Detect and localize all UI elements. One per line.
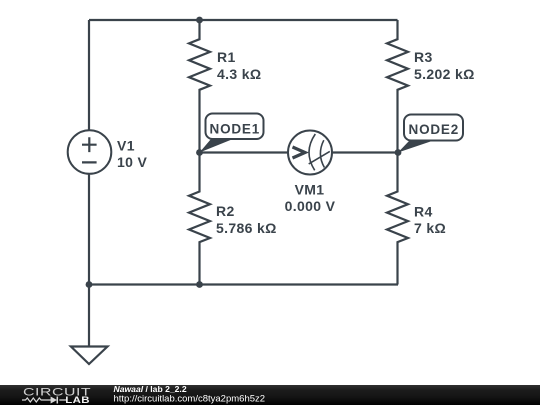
svg-text:http://circuitlab.com/c8tya2pm: http://circuitlab.com/c8tya2pm6h5z2 — [114, 394, 266, 405]
node NODE2 callout — [398, 115, 463, 153]
wire left branch lower (V1 to bottom rail) — [88, 174, 90, 285]
resistor R4 — [387, 153, 408, 285]
svg-text:4.3 kΩ: 4.3 kΩ — [217, 66, 261, 82]
svg-text:V1: V1 — [117, 138, 135, 154]
junction bottom rail middle — [196, 281, 203, 288]
footer bar — [0, 385, 540, 405]
wire left branch upper (top rail to V1) — [88, 20, 90, 130]
svg-text:R2: R2 — [216, 203, 235, 219]
junction node A (NODE1) — [196, 149, 203, 156]
svg-text:R1: R1 — [217, 49, 236, 65]
svg-text:R3: R3 — [414, 49, 433, 65]
logo resistor-diode symbol — [22, 398, 66, 402]
ground — [71, 347, 108, 365]
wire bottom rail right segment — [200, 283, 399, 285]
svg-text:5.202 kΩ: 5.202 kΩ — [414, 66, 475, 82]
junction node B (NODE2) — [395, 149, 402, 156]
voltmeter VM1 — [288, 131, 332, 175]
svg-text:R4: R4 — [414, 204, 433, 220]
wire ground stem — [88, 285, 90, 347]
voltage source V1 — [68, 130, 112, 174]
svg-text:10 V: 10 V — [117, 154, 148, 170]
wire NODE1 to VM1 — [200, 151, 289, 153]
wire VM1 to NODE2 — [332, 151, 398, 153]
svg-text:7 kΩ: 7 kΩ — [414, 220, 446, 236]
resistor R2 — [189, 153, 210, 285]
svg-text:5.786 kΩ: 5.786 kΩ — [216, 220, 277, 236]
resistor R1 — [189, 20, 210, 153]
junction bottom rail left — [86, 281, 93, 288]
wire top rail left segment — [89, 19, 200, 21]
junction top rail — [196, 17, 203, 24]
wire bottom rail left segment — [89, 283, 200, 285]
svg-text:0.000 V: 0.000 V — [285, 198, 336, 214]
wire top rail right segment — [200, 19, 398, 21]
node NODE1 callout — [200, 114, 264, 153]
svg-text:NODE1: NODE1 — [210, 121, 261, 136]
svg-text:LAB: LAB — [65, 396, 90, 405]
svg-text:NODE2: NODE2 — [409, 122, 460, 137]
resistor R3 — [387, 20, 408, 153]
svg-text:VM1: VM1 — [295, 181, 325, 197]
